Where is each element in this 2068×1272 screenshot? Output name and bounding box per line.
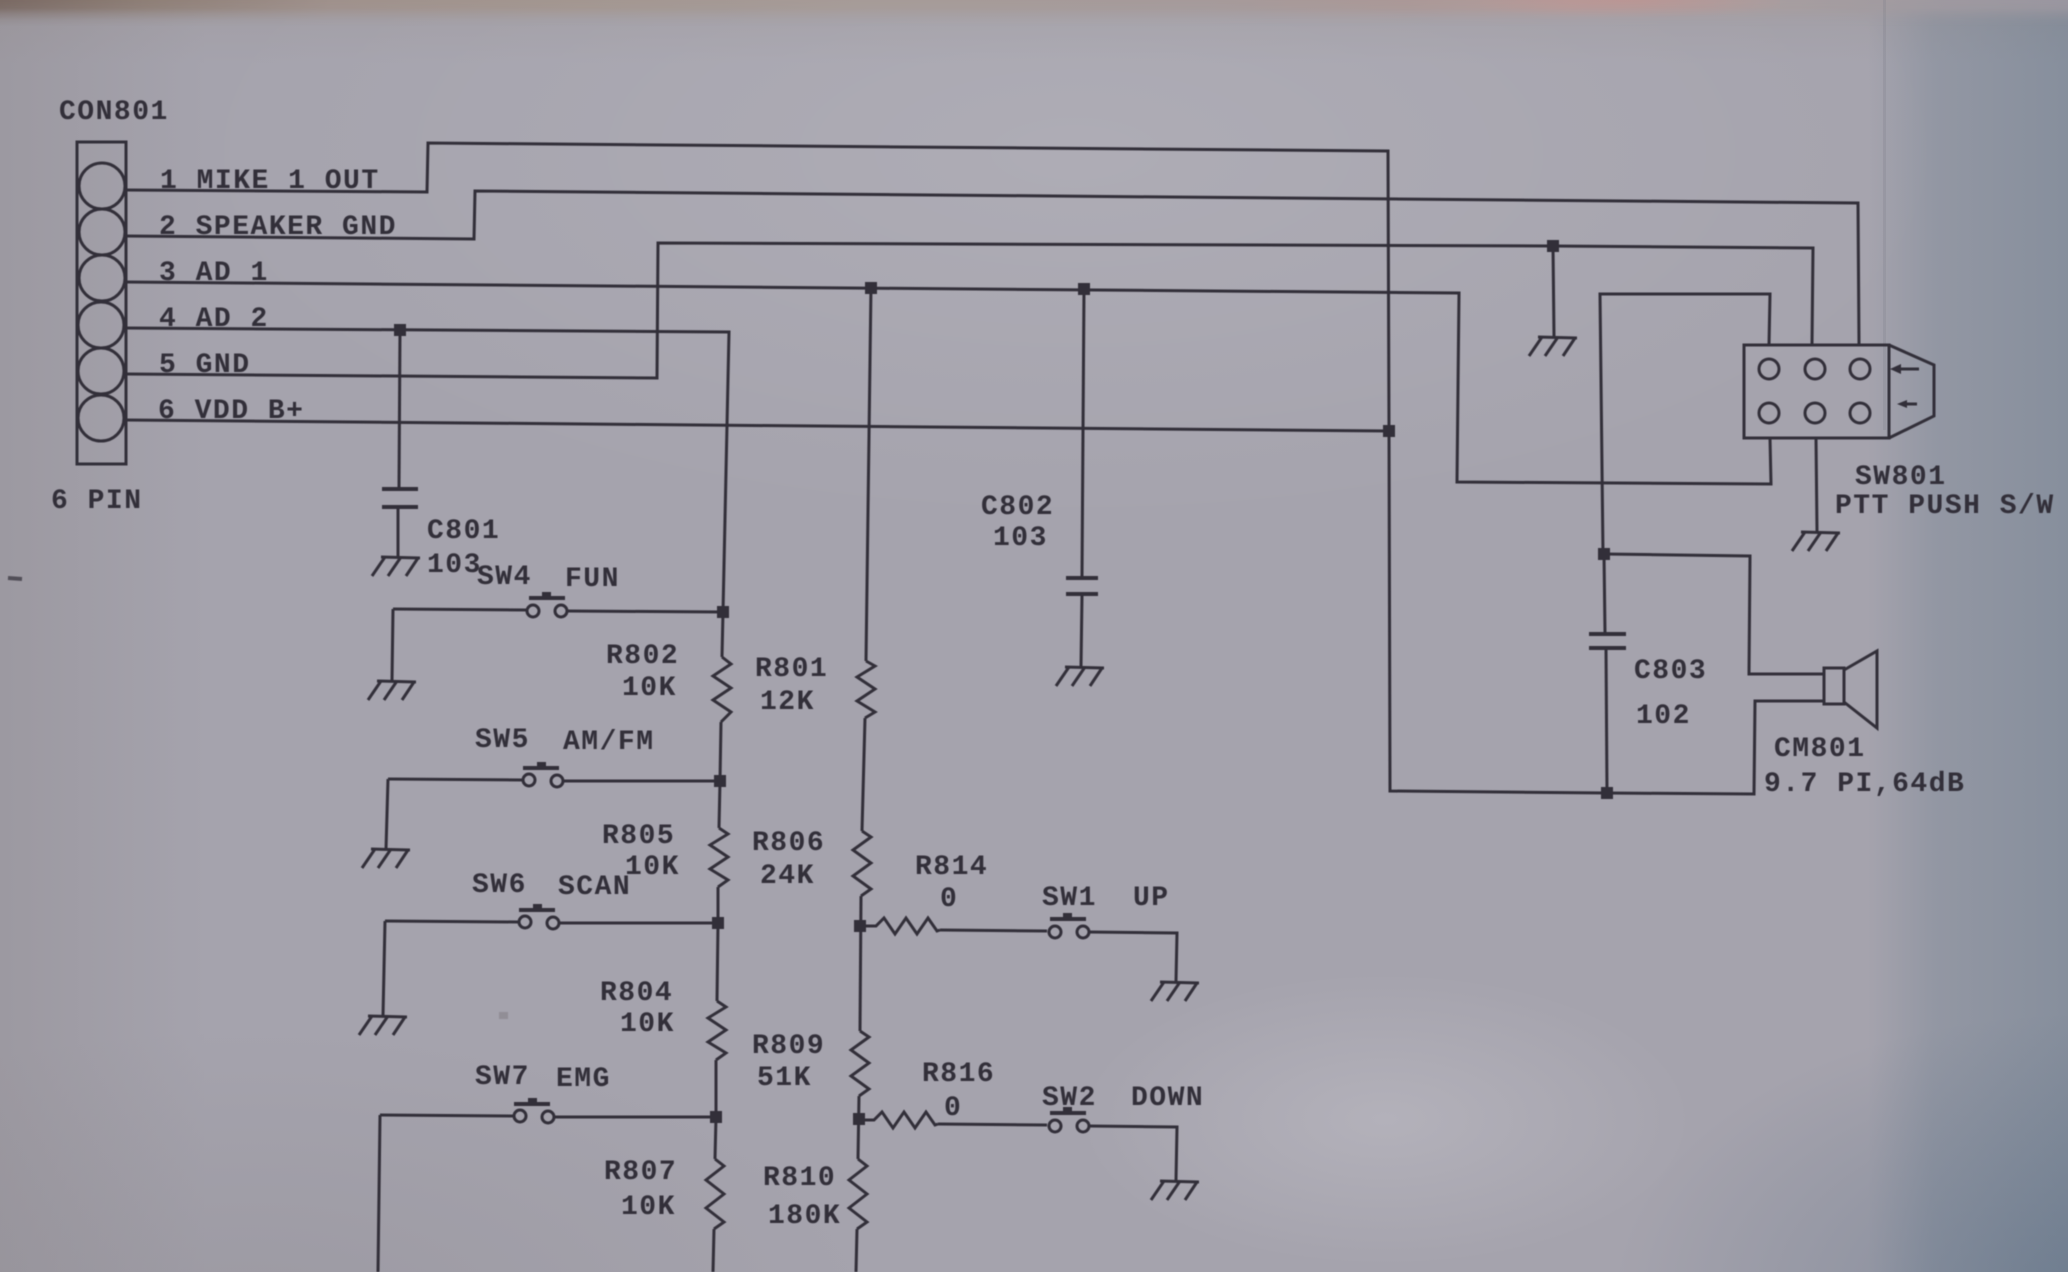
svg-text:10K: 10K (625, 852, 680, 883)
microphone CM801 (1824, 651, 1877, 728)
wire SW801 col2 bottom to ground (1816, 438, 1817, 531)
junction C803 bottom / VDD rail (1601, 787, 1613, 799)
svg-text:EMG: EMG (556, 1064, 611, 1095)
switch SW7 (380, 1098, 716, 1123)
svg-text:12K: 12K (760, 687, 815, 718)
SW801 arrow row1 (1890, 364, 1919, 374)
svg-text:SW7: SW7 (475, 1062, 530, 1093)
svg-text:R801: R801 (755, 654, 828, 685)
junction pin6/mike vertical (1383, 425, 1395, 437)
switch SW2 (1049, 1107, 1089, 1132)
ground SW4 (368, 681, 416, 700)
svg-text:FUN: FUN (565, 564, 620, 595)
resistor R809 (851, 1031, 869, 1096)
svg-text:CON801: CON801 (59, 97, 169, 128)
resistor R816 (859, 1112, 938, 1128)
resistor R802 (713, 657, 731, 722)
svg-text:C801: C801 (427, 516, 500, 547)
svg-text:0: 0 (940, 884, 958, 915)
wire pin2 SPEAKER GND to SW801 pin top col3 (126, 191, 1859, 345)
wire R806 to R809 (860, 896, 861, 1031)
junction C803 top / mic node (1598, 548, 1610, 560)
connector CON801 body (77, 142, 126, 464)
wire SW6 to R804 (717, 923, 718, 1001)
wire R810 to page bottom (856, 1229, 857, 1272)
SW801 arrow row2 (1897, 400, 1917, 408)
resistor R801 (857, 661, 875, 718)
svg-text:C802: C802 (981, 492, 1054, 523)
svg-text:103: 103 (993, 523, 1048, 554)
svg-text:SW2: SW2 (1042, 1083, 1097, 1114)
switch SW5 (388, 762, 720, 787)
wire R814 to SW1 (940, 930, 1047, 931)
ground C802 (1056, 667, 1104, 686)
svg-text:R805: R805 (602, 821, 675, 852)
svg-text:R810: R810 (763, 1163, 836, 1194)
svg-text:9.7 PI,64dB: 9.7 PI,64dB (1764, 769, 1965, 800)
svg-text:4 AD 2: 4 AD 2 (159, 304, 269, 335)
junction R814 tap (854, 920, 866, 932)
svg-text:CM801: CM801 (1774, 734, 1866, 765)
svg-text:PTT PUSH S/W: PTT PUSH S/W (1835, 491, 2055, 522)
wire ground stub on GND rail (1553, 246, 1554, 336)
junction pin3/R801 column (865, 282, 877, 294)
svg-text:10K: 10K (620, 1009, 675, 1040)
svg-text:UP: UP (1133, 883, 1170, 914)
wire pin4 AD 2 to switch ladder column (126, 328, 729, 612)
svg-text:R807: R807 (604, 1157, 677, 1188)
svg-text:10K: 10K (621, 1192, 676, 1223)
ground SW6 (359, 1016, 407, 1035)
wire SW7 to page bottom (378, 1115, 380, 1272)
resistor R814 (860, 918, 940, 934)
svg-text:R816: R816 (922, 1059, 995, 1090)
resistor R805 (710, 828, 728, 887)
svg-text:10K: 10K (622, 673, 677, 704)
svg-text:SW1: SW1 (1042, 883, 1097, 914)
junction SW4 row / column (717, 606, 729, 618)
junction SW5 row / column (714, 775, 726, 787)
svg-text:180K: 180K (768, 1201, 841, 1232)
wire pin5 GND rail to SW801 pin top col2 (126, 243, 1813, 378)
wire pin3 AD 1 to SW801 pin bottom col1 (126, 282, 1771, 484)
svg-text:DOWN: DOWN (1131, 1083, 1204, 1114)
wire pin1 MIKE 1 OUT to mic lower terminal (126, 143, 1824, 794)
svg-text:SW4: SW4 (477, 562, 532, 593)
wire R807 to page bottom (713, 1229, 714, 1272)
wire SW4 to ground (392, 609, 393, 681)
resistor R810 (849, 1159, 867, 1229)
svg-text:SW5: SW5 (475, 725, 530, 756)
ground SW5 (362, 849, 410, 868)
capacitor C801 (382, 330, 418, 556)
wire R805 to SW6 row (717, 887, 720, 923)
switch SW6 (385, 904, 718, 929)
switch SW4 (393, 592, 723, 617)
svg-text:102: 102 (1636, 701, 1691, 732)
svg-text:6 PIN: 6 PIN (51, 486, 143, 517)
svg-text:5 GND: 5 GND (159, 350, 251, 381)
svg-text:51K: 51K (757, 1063, 812, 1094)
svg-text:R809: R809 (752, 1031, 825, 1062)
svg-text:AM/FM: AM/FM (563, 727, 655, 758)
wire R801 column upper (866, 286, 871, 661)
wire SW2 to ground (1089, 1126, 1177, 1180)
svg-text:SCAN: SCAN (558, 872, 631, 903)
wire SW7 to R807 (715, 1117, 716, 1159)
svg-text:R802: R802 (606, 641, 679, 672)
svg-text:R804: R804 (600, 978, 673, 1009)
wire mic node to mic upper terminal (1604, 554, 1824, 674)
wire R802 to SW5 row (720, 722, 721, 781)
svg-text:0: 0 (944, 1093, 962, 1124)
switch SW801 body (1744, 345, 1934, 438)
wire SW1 to ground (1089, 932, 1177, 981)
stray mark dash left margin (8, 578, 22, 579)
junction SW6 row / column (712, 917, 724, 929)
wire R809 to R810 (858, 1096, 859, 1159)
wire SW5 to ground (386, 779, 388, 849)
wire R804 to SW7 row (715, 1060, 718, 1117)
stray speck (499, 1012, 508, 1019)
svg-text:24K: 24K (760, 861, 815, 892)
ground SW801 (1792, 532, 1840, 551)
svg-text:SW6: SW6 (472, 870, 527, 901)
junction pin4/C801 (394, 324, 406, 336)
svg-text:C803: C803 (1634, 656, 1707, 687)
ground symbol on GND rail (1529, 337, 1577, 356)
svg-text:103: 103 (427, 550, 482, 581)
wire SW6 to ground (383, 921, 385, 1016)
junction rail GND ground stub (1547, 240, 1559, 252)
svg-text:SW801: SW801 (1855, 462, 1947, 493)
ground SW2 (1151, 1181, 1199, 1200)
wire R801 to R806 (862, 718, 865, 831)
wire column SW4 to R802 (722, 612, 723, 657)
capacitor C803 (1589, 554, 1626, 793)
ground SW1 (1151, 982, 1199, 1001)
svg-text:R814: R814 (915, 852, 988, 883)
switch SW1 (1049, 913, 1089, 938)
capacitor C802 (1066, 288, 1098, 666)
wire pin6 VDD B+ (126, 420, 1389, 431)
svg-text:R806: R806 (752, 828, 825, 859)
wire SW5 to R805 (719, 781, 720, 828)
junction pin3/C802 (1078, 283, 1090, 295)
junction SW7 row / column (710, 1111, 722, 1123)
resistor R806 (853, 831, 871, 896)
wire SW801 col1 top to mic node (1600, 294, 1770, 554)
resistor R807 (706, 1159, 724, 1229)
wire R816 to SW2 (938, 1124, 1047, 1125)
ground C801 (372, 557, 420, 576)
junction R816 tap (853, 1113, 865, 1125)
resistor R804 (708, 1001, 726, 1060)
